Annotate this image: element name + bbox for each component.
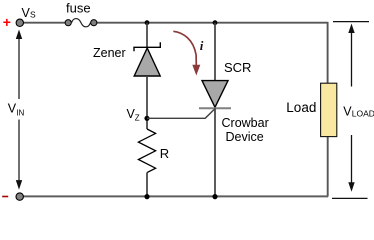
wire zener anode lead bbox=[146, 23, 148, 47]
node negative terminal bbox=[16, 193, 23, 200]
svg-text:Z: Z bbox=[135, 113, 140, 122]
node junction SCR-bottom bbox=[212, 194, 217, 199]
svg-text:LOAD: LOAD bbox=[352, 109, 374, 119]
svg-text:SCR: SCR bbox=[224, 60, 251, 75]
wire right drop to load bbox=[327, 22, 329, 84]
wire SCR anode lead bbox=[214, 23, 216, 81]
svg-text:S: S bbox=[30, 10, 36, 20]
label - bbox=[2, 196, 8, 198]
svg-text:i: i bbox=[200, 38, 204, 53]
svg-text:fuse: fuse bbox=[66, 1, 91, 16]
svg-text:Load: Load bbox=[286, 100, 316, 115]
load resistor block bbox=[321, 83, 337, 136]
wire top rail bbox=[20, 22, 327, 24]
wire bottom rail bbox=[20, 195, 328, 197]
svg-text:Crowbar: Crowbar bbox=[222, 116, 269, 130]
resistor R bbox=[138, 129, 155, 173]
wire SCR cathode lead bbox=[214, 108, 216, 196]
wire resistor bottom lead bbox=[146, 173, 148, 197]
node junction zener-top bbox=[145, 20, 150, 25]
SCR thyristor bbox=[199, 81, 231, 109]
svg-text:IN: IN bbox=[16, 108, 24, 117]
wire zener to Vz node bbox=[146, 76, 148, 129]
svg-text:Zener: Zener bbox=[93, 46, 126, 60]
svg-text:Device: Device bbox=[226, 130, 264, 144]
arrow current i curved bbox=[173, 31, 200, 75]
svg-text:+: + bbox=[3, 14, 11, 30]
wire gate from Vz to SCR bbox=[147, 109, 215, 119]
node junction resistor-bottom bbox=[144, 194, 149, 199]
node junction SCR-top bbox=[213, 20, 218, 25]
node Vs terminal bbox=[16, 19, 23, 26]
arrow Vin double-headed bbox=[16, 30, 22, 190]
arrow Vload double-headed with ticks bbox=[332, 22, 369, 199]
svg-text:R: R bbox=[160, 146, 169, 161]
zener diode D1 bbox=[134, 42, 160, 76]
wire load bottom lead bbox=[327, 137, 329, 197]
fuse F1 bbox=[65, 19, 97, 27]
node Vz junction bbox=[144, 116, 149, 121]
